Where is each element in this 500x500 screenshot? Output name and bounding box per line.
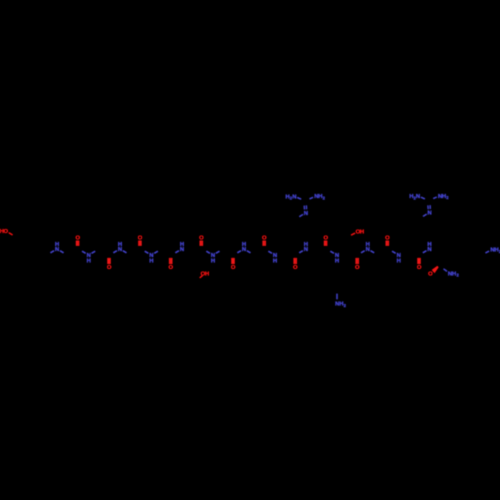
serine side-chain OH (200, 272, 209, 278)
svg-text:H: H (242, 242, 246, 248)
svg-text:H: H (335, 258, 339, 264)
amide N12 with H (392, 251, 401, 264)
svg-text:O: O (107, 265, 112, 271)
svg-text:H: H (180, 242, 184, 248)
amide N2 with H (82, 251, 95, 264)
amide N8 with H (268, 251, 277, 264)
svg-text:O: O (417, 265, 422, 271)
amide N9 with H (299, 242, 308, 253)
svg-text:H: H (87, 258, 91, 264)
carbonyl O4 double bond (169, 258, 174, 271)
svg-text:N: N (292, 194, 296, 200)
amide N1 with H (50, 242, 63, 253)
svg-text:H: H (366, 242, 370, 248)
svg-text:O: O (231, 265, 236, 271)
carbonyl O2 double bond (107, 258, 112, 271)
svg-text:H: H (397, 258, 401, 264)
svg-text:H: H (452, 271, 456, 277)
terminal side-chain NH2 (right edge) (485, 248, 500, 254)
svg-text:O: O (293, 265, 298, 271)
arginine-1 guanidinium (286, 194, 326, 217)
svg-text:N: N (427, 247, 431, 253)
carbonyl O5 double bond (199, 236, 204, 246)
svg-text:H: H (304, 242, 308, 248)
carbonyl O9 double bond (323, 236, 328, 246)
svg-text:N: N (416, 194, 420, 200)
svg-text:N: N (428, 211, 432, 217)
amide N5 with H (175, 242, 184, 253)
amide N6 with H (206, 251, 219, 264)
amide N7 with H (237, 242, 250, 253)
amide N11 with H (361, 242, 374, 253)
svg-text:N: N (366, 247, 370, 253)
svg-text:H: H (339, 302, 343, 308)
svg-text:H: H (273, 258, 277, 264)
svg-text:H: H (211, 258, 215, 264)
carbonyl O7 double bond (262, 236, 267, 246)
C-terminal amide C(=O)NH2 (428, 266, 459, 278)
carbonyl O1 double bond (75, 236, 80, 246)
phenol HO (tyrosine-like) (0, 229, 13, 235)
carbonyl O8 double bond (293, 258, 298, 271)
carbonyl O3 double bond (138, 236, 143, 246)
svg-text:N: N (118, 247, 122, 253)
carbonyl O11 double bond (385, 236, 390, 246)
svg-text:N: N (304, 211, 308, 217)
svg-text:H: H (55, 242, 59, 248)
amide N13 with H (423, 242, 432, 253)
amide N3 with H (113, 242, 126, 253)
arginine-2 guanidinium (409, 194, 449, 217)
svg-text:N: N (242, 247, 246, 253)
svg-text:HO: HO (0, 229, 9, 235)
svg-text:O: O (169, 265, 174, 271)
threonine side-chain OH (351, 229, 364, 235)
svg-text:O: O (355, 265, 360, 271)
svg-text:H: H (427, 242, 431, 248)
svg-text:H: H (149, 258, 153, 264)
svg-text:OH: OH (356, 229, 364, 235)
amide N4 with H (145, 251, 158, 264)
svg-text:N: N (180, 247, 184, 253)
svg-text:N: N (55, 247, 59, 253)
carbonyl O10 double bond (355, 258, 360, 271)
svg-text:H: H (118, 242, 122, 248)
amide N10 with H (330, 251, 339, 264)
carbonyl O6 double bond (231, 258, 236, 271)
carbonyl O12 double bond (417, 258, 422, 271)
svg-text:N: N (304, 247, 308, 253)
lysine side-chain NH2 (335, 294, 347, 308)
svg-text:O: O (428, 272, 433, 278)
